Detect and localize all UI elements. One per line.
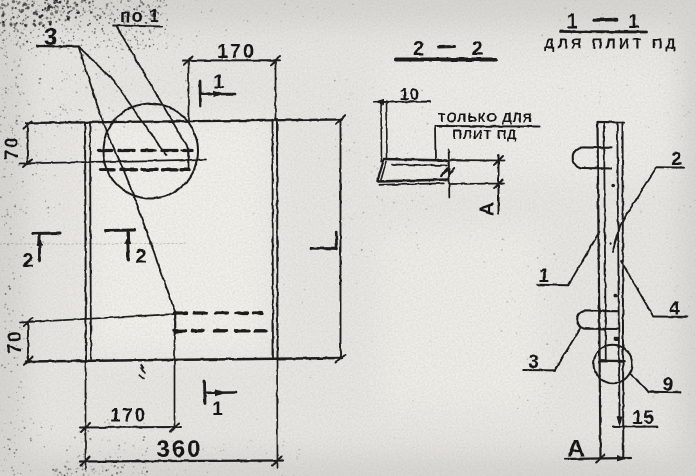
anchor loop 2 [577, 311, 618, 329]
upper embed end bracket [182, 148, 189, 170]
svg-text:ПЛИТ ПД: ПЛИТ ПД [453, 127, 518, 142]
svg-text:170: 170 [110, 406, 147, 427]
upper embed dashed bars row 1 [99, 149, 192, 152]
lower embed end bracket [175, 312, 182, 334]
section mark 1 top [200, 72, 235, 106]
svg-text:170: 170 [217, 41, 256, 63]
plate left edge double line [85, 123, 91, 362]
weld tick on inner right line [614, 337, 619, 341]
2-2 slab inner top line [392, 165, 447, 166]
label 3 with two leaders [37, 24, 176, 313]
upper embed dashed bars row 2 [100, 168, 189, 171]
title 2-2 [396, 38, 496, 60]
svg-text:1: 1 [628, 11, 639, 33]
label L rotated [311, 232, 337, 249]
anchor loop 1 [573, 147, 612, 168]
lower embed dashed bars row 1 [175, 311, 262, 314]
svg-text:1: 1 [566, 11, 577, 33]
leader label 2 [613, 149, 685, 252]
svg-text:ТОЛЬКО ДЛЯ: ТОЛЬКО ДЛЯ [438, 110, 533, 125]
dimension 10 [374, 85, 430, 162]
dimension A right of 2-2 [451, 155, 505, 216]
1-1 element outer left line [598, 122, 601, 459]
extension line above right edge for dim 170 [275, 60, 277, 120]
stray pencil mark [139, 365, 145, 379]
1-1 channel bottom closure [601, 360, 625, 363]
dimension L right vertical [336, 116, 345, 363]
section mark 1 bottom [205, 381, 237, 420]
2-2 break line with zigzag [441, 150, 454, 198]
svg-text:по 1: по 1 [120, 6, 160, 26]
detail circle 9 [594, 345, 633, 384]
leader label 3 [524, 329, 580, 374]
section mark 2 right [106, 230, 147, 268]
faint scan artifact line [0, 243, 185, 246]
dimension 170 top [183, 41, 280, 65]
svg-text:70: 70 [2, 136, 23, 160]
note только для плит ПД [435, 110, 540, 159]
title 1-1 [544, 11, 679, 53]
leader label 1 [537, 232, 600, 288]
2-2 slab top edge [384, 159, 449, 161]
detail circle on upper embed [103, 104, 198, 199]
dimension 70 lower left [5, 318, 32, 365]
svg-text:А: А [478, 202, 499, 216]
2-2 slab bottom edge [378, 180, 449, 182]
svg-text:360: 360 [156, 436, 202, 463]
lower embed top line [20, 314, 176, 323]
leader label 9 [631, 374, 681, 396]
upper embed centerline [20, 160, 206, 164]
dimension 170 bottom [80, 406, 181, 433]
svg-text:1: 1 [212, 399, 223, 420]
1-1 element inner right line with arrow for 15 [617, 122, 623, 427]
dimension 70 upper left [2, 122, 32, 168]
svg-text:2: 2 [472, 38, 483, 60]
dimension 15 [613, 408, 658, 429]
2-2 slab left slant [378, 159, 387, 181]
leader label 4 [621, 261, 688, 320]
plate top edge [26, 120, 342, 124]
extension line for top dim 170 at embed [188, 60, 190, 122]
1-1 element outer right line [622, 122, 625, 459]
svg-text:70: 70 [5, 330, 26, 354]
dimension 360 bottom [80, 436, 283, 466]
svg-text:2: 2 [22, 250, 33, 272]
lower embed dashed bars row 2 [174, 329, 266, 332]
svg-text:2: 2 [413, 38, 424, 60]
1-1 element top cap [598, 121, 624, 124]
plate bottom edge [26, 358, 342, 362]
svg-text:ДЛЯ ПЛИТ ПД: ДЛЯ ПЛИТ ПД [544, 37, 679, 53]
svg-text:1: 1 [213, 72, 224, 93]
extension from lower embed down to dim [174, 333, 176, 429]
dimension A bottom of 1-1 [565, 436, 631, 463]
small dots on element [610, 184, 618, 298]
2-2 slab inner bottom line [379, 183, 444, 184]
extension line below right edge [276, 359, 279, 468]
label по 1 [113, 6, 189, 149]
plate right edge double line [273, 120, 278, 360]
section mark 2 left [22, 233, 60, 272]
svg-text:2: 2 [135, 246, 146, 268]
1-1 element inner left line [604, 122, 606, 361]
extension line below left edge [85, 361, 87, 469]
